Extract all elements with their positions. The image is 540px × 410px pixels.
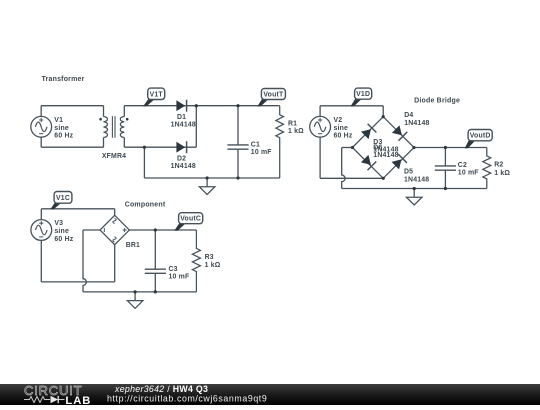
svg-text:http://circuitlab.com/cwj6sanm: http://circuitlab.com/cwj6sanma9qt9 [107, 393, 267, 403]
svg-text:C2: C2 [458, 162, 467, 169]
svg-text:1N4148: 1N4148 [373, 152, 398, 159]
svg-text:VoutC: VoutC [180, 216, 201, 223]
svg-text:Diode Bridge: Diode Bridge [414, 97, 460, 104]
svg-text:sine: sine [54, 125, 69, 132]
svg-text:1N4148: 1N4148 [404, 120, 429, 127]
svg-text:XFMR4: XFMR4 [102, 153, 126, 160]
svg-text:Transformer: Transformer [42, 76, 85, 83]
svg-text:V1T: V1T [150, 91, 164, 98]
svg-text:BR1: BR1 [126, 242, 140, 249]
svg-text:D2: D2 [177, 155, 186, 162]
svg-text:R1: R1 [288, 121, 297, 128]
svg-text:10 mF: 10 mF [251, 149, 272, 156]
svg-text:1N4148: 1N4148 [171, 163, 196, 170]
svg-text:VoutD: VoutD [470, 133, 491, 140]
svg-text:C3: C3 [169, 266, 178, 273]
svg-text:LAB: LAB [65, 395, 91, 405]
svg-text:V2: V2 [334, 117, 343, 124]
svg-text:C1: C1 [251, 141, 260, 148]
svg-text:V1: V1 [54, 117, 63, 124]
svg-text:10 mF: 10 mF [169, 273, 190, 280]
svg-text:60 Hz: 60 Hz [54, 236, 73, 243]
svg-text:D1: D1 [177, 114, 186, 121]
svg-text:V1D: V1D [356, 91, 370, 98]
svg-text:D5: D5 [404, 169, 413, 176]
svg-text:D4: D4 [404, 112, 413, 119]
svg-text:R2: R2 [494, 161, 503, 168]
svg-text:sine: sine [54, 228, 69, 235]
svg-text:D6: D6 [373, 145, 382, 152]
svg-text:VoutT: VoutT [263, 92, 284, 99]
svg-text:60 Hz: 60 Hz [54, 133, 73, 140]
svg-text:60 Hz: 60 Hz [334, 133, 353, 140]
svg-text:1N4148: 1N4148 [404, 176, 429, 183]
svg-text:V3: V3 [54, 220, 63, 227]
svg-text:1N4148: 1N4148 [171, 122, 196, 129]
svg-text:V1C: V1C [56, 195, 70, 202]
svg-text:10 mF: 10 mF [458, 170, 479, 177]
svg-text:Component: Component [125, 201, 166, 208]
svg-text:1 kΩ: 1 kΩ [288, 128, 304, 135]
svg-text:R3: R3 [205, 254, 214, 261]
svg-text:1 kΩ: 1 kΩ [494, 170, 510, 177]
svg-text:1 kΩ: 1 kΩ [205, 262, 221, 269]
svg-text:sine: sine [334, 125, 349, 132]
